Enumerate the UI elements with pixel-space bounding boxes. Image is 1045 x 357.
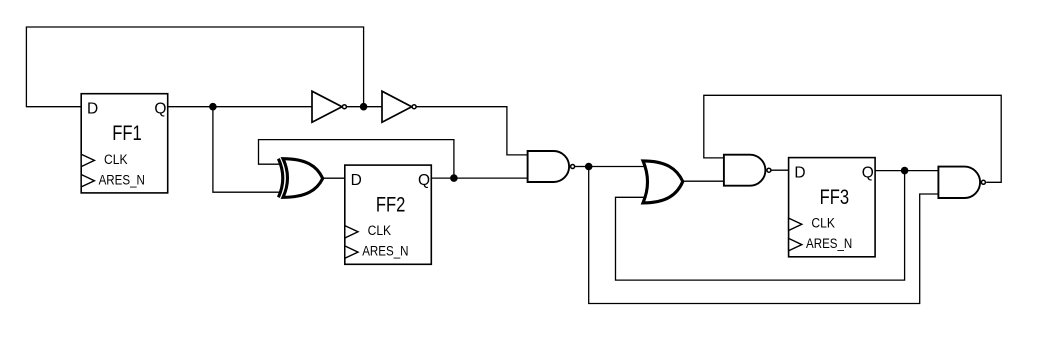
NAND gate N3 <box>938 167 985 198</box>
wire: node C down around bottom to NAND N3 lower input <box>589 167 940 304</box>
wire: node A down to XOR X1 lower input <box>213 107 281 193</box>
wire: NAND N1 output to node C <box>575 166 589 168</box>
NAND gate N1 <box>528 151 575 182</box>
svg-text:D: D <box>794 164 805 181</box>
svg-text:ARES_N: ARES_N <box>99 172 145 187</box>
svg-text:CLK: CLK <box>368 223 392 238</box>
wire: OR O1 output to NAND N2 lower input <box>683 180 725 182</box>
wire: NAND N2 output to FF3 D input <box>771 169 790 171</box>
OR gate O1 <box>643 161 683 203</box>
svg-text:Q: Q <box>154 101 166 118</box>
svg-text:D: D <box>351 172 362 189</box>
wire: node D feedback down around to OR O1 lower input <box>616 171 905 281</box>
flip-flop FF3 <box>789 158 876 257</box>
svg-text:FF2: FF2 <box>376 193 406 216</box>
junction node N1 <box>360 103 368 111</box>
junction node D <box>901 167 909 175</box>
flip-flop FF1 <box>81 94 168 193</box>
wire: node B feedback to XOR X1 upper input <box>259 140 454 179</box>
wire: U1 output to node N1 <box>346 106 363 108</box>
wire: node A to inverter U1 input <box>213 106 313 108</box>
wire: FF3 Q output to node D <box>875 170 905 172</box>
wire: node B to NAND N1 lower input <box>454 177 529 179</box>
flip-flop FF2 <box>345 165 432 264</box>
svg-text:ARES_N: ARES_N <box>806 236 852 251</box>
wire: U2 output routed to NAND N1 top input <box>416 107 529 155</box>
inverter U1 <box>312 91 346 122</box>
svg-text:D: D <box>87 101 98 118</box>
wire: node N1 to inverter U2 input <box>364 106 383 108</box>
junction node A <box>209 103 217 111</box>
svg-text:CLK: CLK <box>811 216 835 231</box>
svg-text:Q: Q <box>418 172 430 189</box>
XOR gate X1 <box>278 159 322 198</box>
wire: XOR X1 output to FF2 D input <box>323 177 346 179</box>
junction node C <box>585 163 593 171</box>
NAND gate N2 <box>724 155 771 186</box>
inverter U2 <box>382 91 416 122</box>
wire: node D to NAND N3 upper input <box>905 170 940 172</box>
svg-text:ARES_N: ARES_N <box>362 244 408 259</box>
svg-text:FF3: FF3 <box>820 186 850 209</box>
svg-text:FF1: FF1 <box>112 122 142 145</box>
wire: feedback from node N1 up over the top to FF1 D input <box>26 27 363 107</box>
svg-text:CLK: CLK <box>104 152 128 167</box>
wire: FF1 Q output to node A <box>168 106 213 108</box>
wire: FF2 Q output to node B <box>431 177 454 179</box>
svg-text:Q: Q <box>862 164 874 181</box>
junction node B <box>450 174 458 182</box>
wire: node C to OR O1 upper input <box>589 166 650 168</box>
wire: NAND N3 output feedback over the top to NAND N2 upper input <box>704 95 1001 182</box>
